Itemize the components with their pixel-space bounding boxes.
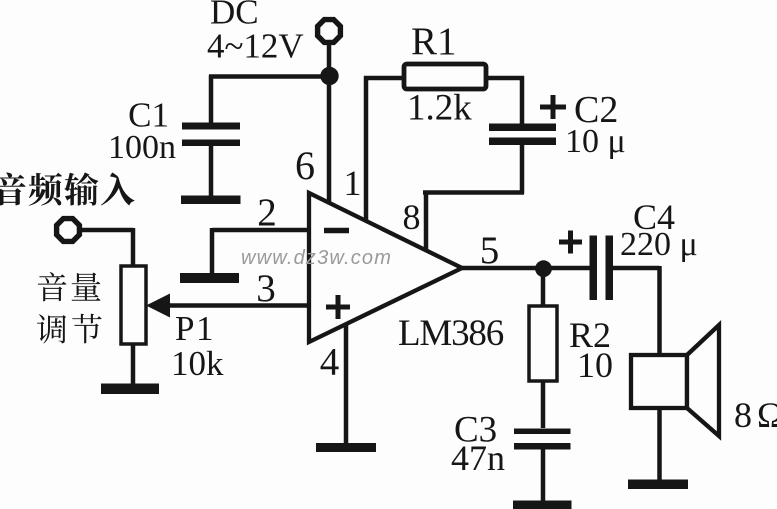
wire C1 top	[209, 75, 214, 124]
wire C1 bottom	[209, 145, 214, 199]
wire pin 5 output	[462, 266, 592, 271]
wire R2 bottom	[541, 381, 546, 428]
svg-text:1.2k: 1.2k	[407, 88, 472, 129]
wire pin 4	[344, 323, 349, 445]
svg-text:10: 10	[577, 345, 613, 385]
capacitor C2	[489, 124, 556, 132]
op-amp U1 LM386	[309, 193, 462, 342]
svg-text:4~12V: 4~12V	[207, 27, 304, 66]
capacitor C3	[514, 429, 571, 435]
wire power horizontal to C1	[209, 74, 330, 79]
svg-text:P1: P1	[175, 309, 215, 348]
svg-text:LM386: LM386	[398, 313, 504, 354]
wire pin 1 up to R1	[364, 76, 369, 222]
svg-text:6: 6	[295, 143, 315, 188]
capacitor C1	[182, 123, 240, 130]
wire R2 top	[541, 266, 546, 307]
wire pin 2	[212, 228, 309, 233]
svg-text:R1: R1	[411, 20, 457, 63]
capacitor C4	[590, 236, 598, 301]
resistor R1	[404, 64, 486, 89]
wire pin 3	[167, 303, 309, 308]
svg-text:47n: 47n	[451, 438, 505, 478]
wire C4 right	[612, 266, 660, 271]
wire power vertical to pin 6	[327, 42, 332, 203]
svg-text:10k: 10k	[171, 344, 224, 383]
svg-text:5: 5	[480, 229, 500, 272]
speaker driver	[631, 355, 687, 408]
label volume adjust (Chinese)	[38, 272, 67, 301]
ground speaker	[628, 480, 688, 490]
C4 plus sign	[559, 240, 582, 245]
label audio input (Chinese)	[0, 173, 26, 206]
speaker horn	[687, 325, 719, 436]
op-amp minus input mark	[324, 228, 349, 234]
wire R1 left	[364, 76, 404, 81]
svg-text:4: 4	[320, 341, 340, 384]
wire speaker down	[657, 406, 662, 481]
wire pin 8	[424, 191, 429, 252]
terminal DC+	[318, 20, 341, 43]
wire P1 bottom	[131, 344, 136, 385]
resistor R2	[529, 306, 557, 381]
ground pin 4	[316, 443, 376, 452]
svg-text:100n: 100n	[108, 129, 176, 166]
wire input horizontal	[80, 228, 133, 233]
svg-text:2: 2	[257, 191, 277, 234]
ground P1	[101, 384, 159, 395]
wire C4 down to speaker	[657, 266, 662, 356]
terminal audio input	[57, 219, 80, 242]
op-amp plus input mark	[326, 305, 350, 310]
potentiometer P1 body	[121, 266, 146, 344]
svg-text:10 μ: 10 μ	[565, 123, 626, 160]
C2 plus sign	[540, 105, 566, 110]
svg-text:www.dz3w.com: www.dz3w.com	[241, 247, 392, 269]
node output junction	[535, 260, 552, 277]
wire input down to P1	[131, 228, 136, 267]
wire C2 bottom	[520, 143, 525, 194]
svg-text:220 μ: 220 μ	[620, 226, 698, 263]
ground C3	[513, 501, 572, 509]
node power junction	[320, 67, 338, 85]
svg-text:8 Ω: 8 Ω	[734, 395, 777, 435]
ground C1	[181, 196, 241, 205]
wire R1 right	[486, 76, 524, 81]
potentiometer wiper arrow	[146, 294, 170, 318]
svg-text:1: 1	[344, 163, 362, 203]
ground pin 2	[180, 273, 239, 283]
svg-text:8: 8	[403, 197, 421, 237]
wire C2 top	[520, 76, 525, 126]
wire C3 bottom	[541, 448, 546, 503]
